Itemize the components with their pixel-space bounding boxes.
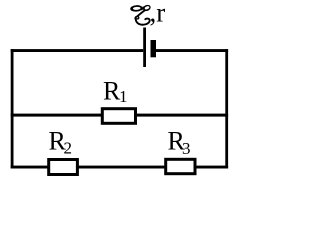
wire top-right (battery to right rail) <box>156 49 228 52</box>
resistor R1 <box>102 109 135 124</box>
wire middle-right (R1 to right rail) <box>136 114 228 117</box>
label E,r (EMF and internal resistance) <box>130 0 165 28</box>
resistor R2 <box>49 160 78 175</box>
resistor R3 <box>166 159 195 173</box>
svg-text:3: 3 <box>182 139 191 158</box>
svg-text:1: 1 <box>119 87 128 106</box>
svg-text:2: 2 <box>64 138 73 157</box>
wire bottom-middle (R2 to R3) <box>78 166 166 169</box>
svg-text:,r: ,r <box>150 0 166 28</box>
wire left rail <box>11 49 14 168</box>
wire bottom-left (left rail to R2) <box>11 166 49 169</box>
wire middle-left (left rail to R1) <box>11 114 102 117</box>
wire bottom-right (R3 to right rail) <box>196 166 229 169</box>
battery B1 (cell) <box>143 28 156 68</box>
wire right rail <box>225 49 228 168</box>
wire top-left (left rail to battery) <box>11 49 144 52</box>
